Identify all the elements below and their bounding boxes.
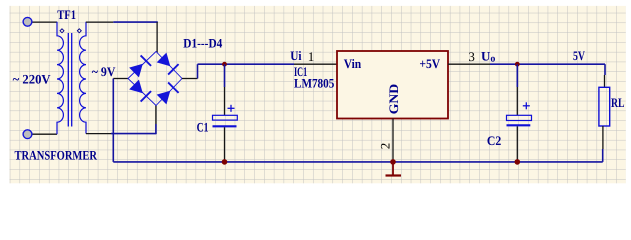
wire: input pin black	[294, 63, 337, 65]
diode D1 top-left	[129, 55, 151, 77]
transformer core	[67, 33, 69, 127]
svg-text:RL: RL	[611, 95, 625, 110]
wire: right vertex stub	[182, 78, 198, 80]
terminal bottom-left	[23, 130, 32, 139]
wire: secondary top to top rail (black part)	[86, 21, 113, 23]
svg-text:+5V: +5V	[419, 56, 440, 71]
wire: C2 top lead black	[516, 87, 518, 115]
wire: RL bottom lead black	[602, 126, 604, 149]
wire: vertical x113 to bottom rail	[112, 79, 114, 162]
wire: GND pin lead	[392, 119, 394, 162]
wire: up to bus	[197, 64, 199, 78]
transformer TF1 primary winding	[57, 22, 63, 134]
node junction C2 bottom	[515, 159, 521, 165]
capacitor C2	[507, 102, 532, 125]
svg-text:C1: C1	[197, 120, 209, 135]
svg-text:C2: C2	[487, 133, 501, 148]
wire: C2 bottom lead	[516, 126, 518, 161]
bridge rectifier D1---D4 diamond	[128, 52, 182, 106]
transformer TF1 secondary winding	[80, 22, 86, 134]
wire: top rail navy part	[113, 21, 158, 23]
ground	[386, 162, 402, 176]
svg-text:2: 2	[377, 143, 392, 150]
wire: left terminal to primary top	[30, 21, 57, 23]
wire: input bus navy	[198, 63, 295, 65]
wire: bridge bottom lead navy	[155, 124, 157, 134]
svg-text:5V: 5V	[573, 48, 585, 63]
svg-text:~ 220V: ~ 220V	[13, 72, 52, 87]
wire: bottom rail	[113, 161, 602, 163]
diode D2 top-right	[156, 52, 178, 74]
wire: RL top lead black	[604, 75, 606, 87]
svg-text:TF1: TF1	[57, 7, 76, 22]
node junction C1 bottom	[222, 159, 228, 165]
node junction GND rail	[390, 159, 396, 165]
wire: C1 top lead black	[224, 87, 226, 115]
capacitor C1	[213, 105, 238, 127]
wire: bridge bottom lead black	[155, 106, 157, 125]
terminal top-left	[23, 17, 32, 26]
svg-text:D1---D4: D1---D4	[183, 36, 222, 51]
wire: bottom-left terminal to primary bottom	[30, 133, 57, 135]
wire: output pin black	[448, 63, 490, 65]
wire: RL bottom lead navy to rail	[602, 149, 604, 162]
svg-text:1: 1	[308, 49, 315, 64]
svg-text:Vin: Vin	[344, 56, 362, 71]
node junction C2 top	[515, 62, 520, 67]
resistor RL	[599, 87, 610, 126]
wire: down to bridge top vertex	[156, 22, 158, 52]
wire: secondary bottom horizontal	[86, 133, 111, 135]
polarity mark secondary	[77, 29, 81, 33]
polarity mark primary	[60, 29, 64, 33]
wire: C2 top lead navy	[516, 64, 518, 87]
op-amp U1: IC1 LM7805 regulator box	[337, 51, 448, 119]
svg-text:TRANSFORMER: TRANSFORMER	[15, 148, 98, 163]
diode D4 bottom-right	[156, 82, 178, 104]
wire: output bus navy	[490, 63, 605, 65]
wire: horizontal y133.6 navy to bridge bottom	[111, 133, 156, 135]
svg-text:GND: GND	[386, 84, 401, 114]
sheet background	[10, 6, 626, 183]
svg-text:~ 9V: ~ 9V	[92, 64, 116, 79]
wire: C1 top lead navy	[224, 64, 226, 87]
wire: C1 bottom lead	[224, 127, 226, 162]
diode D3 bottom-left	[129, 79, 151, 101]
wire: output down to RL	[604, 64, 606, 75]
wire: left vertex stub	[113, 78, 128, 80]
svg-text:Ui: Ui	[290, 48, 302, 63]
svg-text:3: 3	[468, 49, 475, 64]
svg-text:LM7805: LM7805	[294, 76, 335, 91]
node junction C1 top	[222, 62, 227, 67]
